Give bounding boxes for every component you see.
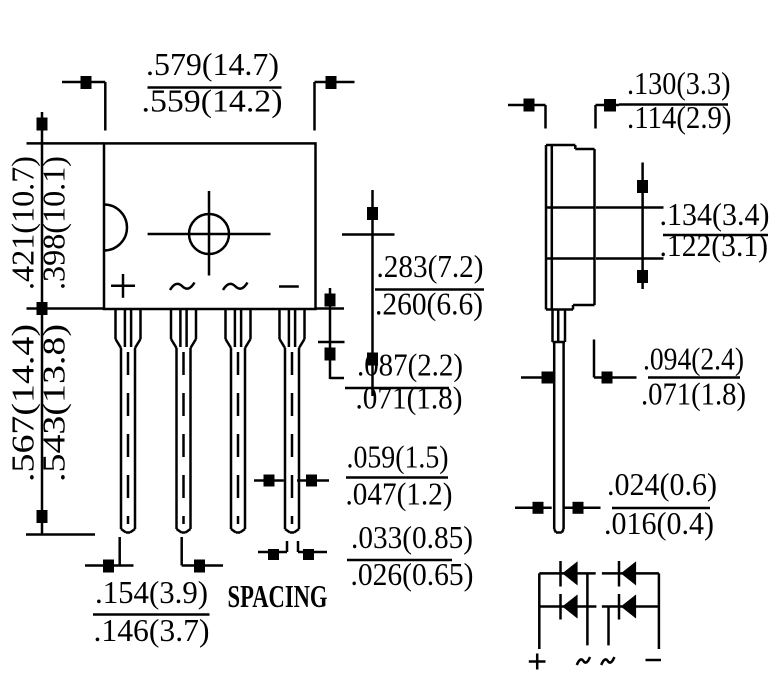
body bottom witness line [27, 307, 105, 310]
lead 1 [116, 309, 141, 533]
svg-text:.283(7.2): .283(7.2) [377, 248, 484, 284]
mounting hole with crosshair [148, 191, 271, 276]
hole-center witness tick [342, 233, 395, 236]
svg-text:.047(1.2): .047(1.2) [346, 476, 453, 512]
svg-text:SPACING: SPACING [228, 578, 328, 614]
svg-text:.059(1.5): .059(1.5) [347, 439, 449, 475]
lead 2 [171, 309, 196, 533]
top width dimension bracket left [62, 76, 105, 131]
dim text .283(7.2)/.260(6.6) [375, 248, 484, 322]
index notch on left edge [104, 205, 127, 251]
svg-text:.559(14.2): .559(14.2) [142, 83, 283, 119]
rotated dim text .567(14.4)/.543(13.8) [5, 324, 72, 482]
dim text .154(3.9)/.146(3.7) [93, 574, 210, 648]
svg-text:.579(14.7): .579(14.7) [146, 46, 279, 82]
svg-text:.026(0.65): .026(0.65) [351, 556, 474, 592]
lead 3 [226, 309, 251, 533]
diode D2 [619, 561, 636, 587]
wire top rail left segment [539, 572, 595, 575]
dim text .087(2.2)/.071(1.8) [345, 347, 463, 416]
dim text .130(3.3)/.114(2.9) [619, 65, 732, 135]
wire middle rail right segment [602, 605, 659, 608]
wire top rail right segment [602, 572, 659, 575]
dim line for .283 [367, 190, 378, 396]
svg-text:.154(3.9): .154(3.9) [95, 574, 208, 610]
wire ~1 terminal vertical [586, 573, 589, 645]
dim text .134(3.4)/.122(3.1) [660, 196, 770, 263]
svg-text:.260(6.6): .260(6.6) [375, 286, 483, 322]
shoulder-end witness tick [318, 341, 345, 344]
rotated dim text .421(10.7)/.398(10.1) [5, 156, 72, 290]
diode D1 [561, 561, 578, 587]
side top dimension bracket left (.130) [508, 99, 546, 129]
terminal label + [529, 654, 546, 670]
lead thickness arrows (.024) [515, 502, 601, 514]
side top dimension bracket right [596, 99, 620, 129]
svg-text:.122(3.1): .122(3.1) [660, 227, 769, 263]
body top witness line [27, 142, 105, 145]
dim line for .134 [637, 163, 648, 290]
svg-text:.398(10.1): .398(10.1) [36, 156, 72, 290]
dim text .033(0.85)/.026(0.65) [347, 519, 474, 592]
diode D3 [561, 594, 578, 620]
polarity mark ~ (2) [223, 283, 248, 291]
terminal label ~1 [577, 657, 590, 665]
side lead [553, 310, 566, 533]
svg-text:.114(2.9): .114(2.9) [627, 99, 732, 135]
dim line for .087 [325, 288, 345, 379]
svg-text:.087(2.2): .087(2.2) [357, 347, 463, 383]
package body outline [104, 143, 316, 309]
svg-text:.071(1.8): .071(1.8) [356, 380, 463, 416]
polarity mark - [279, 285, 299, 288]
wire middle rail left segment [539, 605, 596, 608]
dim text .579(14.7)/.559(14.2) [142, 46, 283, 119]
svg-text:.016(0.4): .016(0.4) [604, 505, 714, 541]
svg-text:.543(13.8): .543(13.8) [36, 324, 72, 482]
section witness ticks [596, 206, 664, 209]
svg-text:.094(2.4): .094(2.4) [643, 341, 744, 377]
lead spacing hooks (.154) [85, 537, 223, 573]
lead tip witness line [26, 533, 95, 536]
terminal label - [646, 659, 662, 662]
wire - terminal vertical [658, 573, 661, 649]
top width dimension bracket right [315, 76, 355, 131]
svg-text:.033(0.85): .033(0.85) [351, 519, 473, 555]
wire ~2 terminal vertical [607, 607, 610, 646]
svg-text:.146(3.7): .146(3.7) [94, 612, 210, 648]
dim text .024(0.6)/.016(0.4) [604, 466, 717, 541]
dim text .094(2.4)/.071(1.8) [641, 341, 746, 412]
terminal label ~2 [601, 657, 614, 665]
svg-text:.071(1.8): .071(1.8) [641, 376, 746, 412]
lead tip width hooks (.033) [258, 541, 327, 560]
svg-text:.130(3.3): .130(3.3) [627, 65, 731, 101]
dim text .059(1.5)/.047(1.2) [346, 439, 453, 512]
side body outline [546, 145, 595, 310]
left vertical dimension line [37, 112, 48, 535]
polarity mark ~ (1) [170, 283, 195, 291]
lead 4 [280, 309, 305, 533]
lead offset arrows (.094) [521, 340, 637, 384]
body bottom witness extension right [316, 307, 345, 310]
diode D4 [619, 594, 636, 620]
wire + terminal vertical [538, 573, 541, 649]
svg-text:.024(0.6): .024(0.6) [607, 466, 717, 502]
polarity mark + [111, 274, 135, 298]
lead width arrows (.059) [254, 475, 329, 487]
